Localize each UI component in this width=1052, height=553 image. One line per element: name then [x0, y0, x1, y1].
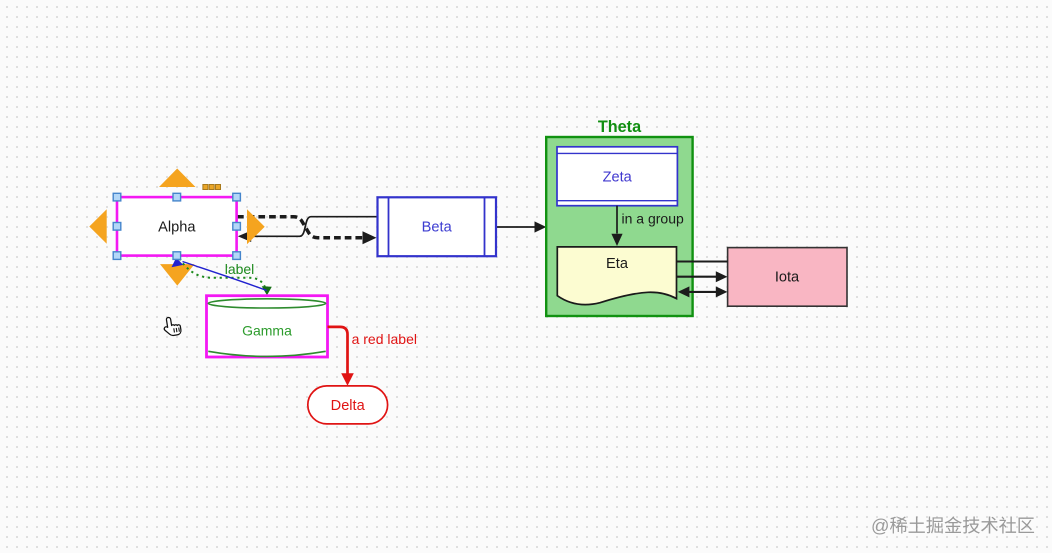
wire: edge Zeta to Eta	[611, 206, 622, 246]
node Iota (pink rect)	[728, 248, 847, 307]
svg-text:Gamma: Gamma	[242, 323, 292, 339]
group Theta (green container)	[546, 137, 692, 316]
arrowhead: green into Gamma	[262, 286, 272, 295]
endpoint arrow right of Alpha (orange triangle right)	[247, 209, 265, 244]
svg-text:Eta: Eta	[606, 256, 629, 272]
node Zeta (rect with inner horizontal lines)	[557, 147, 677, 206]
node Delta (stadium)	[308, 386, 388, 424]
node Eta (document shape)	[557, 247, 676, 305]
node toolbar dots (three small orange squares)	[203, 185, 221, 190]
svg-text:@稀土掘金技术社区: @稀土掘金技术社区	[871, 516, 1035, 536]
node Gamma (cylinder)	[207, 296, 328, 357]
svg-text:Zeta: Zeta	[603, 170, 633, 186]
svg-text:in a group: in a group	[622, 211, 684, 227]
wire: thin solid edge Beta to Alpha	[238, 217, 377, 242]
svg-text:Alpha: Alpha	[158, 219, 196, 235]
wire: red edge Gamma to Delta	[328, 327, 354, 386]
svg-text:Iota: Iota	[775, 270, 800, 286]
wire: thick dashed edge Alpha to Beta	[237, 217, 377, 245]
wire: green dotted edge Alpha to Gamma	[180, 259, 267, 291]
wire: arrow Eta to Iota	[677, 271, 728, 282]
endpoint arrow bottom of Alpha (orange triangle down)	[160, 264, 195, 286]
wire: blue edge Gamma to Alpha	[172, 258, 267, 291]
endpoint arrow top of Alpha (orange triangle up)	[159, 169, 196, 188]
node Beta (subroutine shape)	[378, 197, 497, 256]
wire: plain line Eta to Iota	[677, 260, 728, 262]
selection handles of Alpha (8 blue squares)	[113, 193, 240, 259]
wire: double-arrow Eta to Iota	[678, 286, 728, 297]
cursor: hand pointer	[163, 316, 182, 337]
svg-text:Beta: Beta	[422, 220, 453, 236]
svg-text:a red label: a red label	[352, 331, 417, 347]
svg-text:Delta: Delta	[331, 398, 366, 414]
node Alpha (selected, magenta border)	[117, 197, 237, 256]
svg-text:label: label	[225, 261, 255, 277]
wire: edge Beta to Theta group	[496, 221, 546, 232]
endpoint arrow left of Alpha (orange triangle left)	[89, 209, 106, 244]
svg-text:Theta: Theta	[598, 118, 642, 136]
